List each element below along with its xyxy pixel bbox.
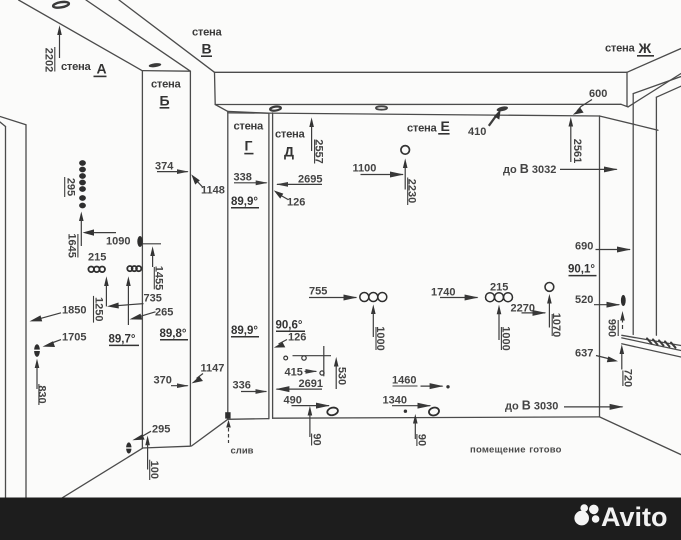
svg-text:1460: 1460 xyxy=(392,375,416,387)
svg-text:1705: 1705 xyxy=(62,332,86,344)
dim to V 3032 xyxy=(503,162,617,176)
dim 1000 left xyxy=(371,304,386,350)
dim 370 xyxy=(154,375,188,387)
svg-text:990: 990 xyxy=(606,319,618,337)
wall label E (Е) xyxy=(407,118,450,135)
towel ring + dim 1070 xyxy=(545,283,562,338)
wall label G (Г) xyxy=(234,121,264,154)
dim 2557 xyxy=(309,117,324,163)
svg-text:Г: Г xyxy=(245,138,253,154)
wall A top edges xyxy=(19,0,191,71)
svg-text:2691: 2691 xyxy=(299,378,323,390)
wall label Zh (Ж) xyxy=(605,40,654,56)
dim 1850 xyxy=(30,305,87,322)
radiator bead chain wall A xyxy=(79,160,86,208)
svg-text:265: 265 xyxy=(155,307,173,319)
dim 1250 xyxy=(92,276,108,322)
dim 520 with bracket marker xyxy=(575,294,626,306)
dim 1740 with pipe chain and 215 xyxy=(431,282,513,302)
angle 89,8 xyxy=(160,328,189,340)
wall label V (В) xyxy=(192,27,222,57)
ceiling band wall V xyxy=(215,72,629,107)
dim 690 xyxy=(575,241,630,253)
svg-text:600: 600 xyxy=(589,88,607,100)
window ledge xyxy=(622,335,681,357)
svg-text:стена: стена xyxy=(605,43,635,55)
svg-text:стена: стена xyxy=(407,123,437,135)
svg-text:89,7°: 89,7° xyxy=(109,334,136,346)
watermark bar xyxy=(0,498,681,540)
svg-text:1148: 1148 xyxy=(201,185,225,197)
drain marker square xyxy=(225,412,231,443)
svg-text:Б: Б xyxy=(160,93,170,109)
svg-text:В: В xyxy=(202,41,212,57)
dim 265 xyxy=(130,307,174,320)
soffit light marker right xyxy=(496,106,508,113)
svg-text:690: 690 xyxy=(575,241,593,253)
svg-text:слив: слив xyxy=(231,446,254,457)
dim 637 leader xyxy=(575,348,618,363)
svg-text:830: 830 xyxy=(36,385,48,403)
dim 410 leader xyxy=(468,109,501,138)
svg-text:755: 755 xyxy=(309,286,327,298)
angle 89,9 upper xyxy=(231,196,259,208)
svg-text:стена: стена xyxy=(192,27,222,39)
svg-text:до В 3032: до В 3032 xyxy=(503,162,556,176)
svg-text:89,9°: 89,9° xyxy=(231,196,258,208)
dim 1100 with water outlet ring xyxy=(353,146,410,190)
svg-text:1147: 1147 xyxy=(201,363,225,375)
svg-text:стена: стена xyxy=(234,121,264,133)
wall Zh corner edges xyxy=(627,49,681,336)
dim 530 xyxy=(334,357,348,389)
svg-text:стена: стена xyxy=(61,61,91,73)
svg-text:2561: 2561 xyxy=(571,139,583,163)
dim 90 left xyxy=(308,406,323,446)
dim 1705 xyxy=(43,332,87,348)
wall V top edge xyxy=(119,0,215,72)
svg-text:Avito: Avito xyxy=(601,502,668,532)
drain oval bottom left xyxy=(125,442,133,453)
wall B column xyxy=(142,71,190,449)
angle 89,7 xyxy=(109,334,140,346)
svg-text:2202: 2202 xyxy=(42,48,54,72)
svg-text:295: 295 xyxy=(152,424,170,436)
socket oval on wall B edge xyxy=(137,236,142,247)
svg-text:1250: 1250 xyxy=(92,297,104,321)
svg-text:637: 637 xyxy=(575,348,593,360)
dim 336 xyxy=(233,380,267,392)
dim 1090 xyxy=(83,229,131,247)
dim 2561 xyxy=(569,117,583,163)
dim 830 xyxy=(35,359,48,405)
wall G column xyxy=(228,111,273,419)
dim 100 xyxy=(145,436,160,481)
dim 295 chain xyxy=(65,177,77,197)
svg-text:410: 410 xyxy=(468,126,486,138)
dim 720 xyxy=(620,344,634,387)
dim 1455 xyxy=(143,244,165,290)
dim 1147 leader xyxy=(192,363,225,384)
svg-text:126: 126 xyxy=(287,197,305,209)
dim 2230 xyxy=(406,178,418,206)
soffit lower edge xyxy=(215,105,658,131)
pipe tee group 415 xyxy=(284,346,331,379)
svg-text:Е: Е xyxy=(441,118,450,134)
dim 126 lower leader xyxy=(274,332,307,348)
svg-text:1740: 1740 xyxy=(431,287,455,299)
angle 89,9 lower xyxy=(231,325,259,337)
dim 990 xyxy=(606,311,625,337)
svg-text:415: 415 xyxy=(285,367,303,379)
right room corner vertical xyxy=(599,116,601,417)
svg-text:338: 338 xyxy=(234,172,252,184)
svg-text:530: 530 xyxy=(336,367,348,385)
svg-text:2695: 2695 xyxy=(298,174,322,186)
dim 1645 xyxy=(66,212,84,258)
floor edge right xyxy=(600,417,681,455)
svg-text:370: 370 xyxy=(154,375,172,387)
angle 90,1 xyxy=(568,264,597,276)
svg-text:336: 336 xyxy=(233,380,251,392)
svg-text:520: 520 xyxy=(575,294,593,306)
left wall panel xyxy=(0,117,28,520)
dim 2695 xyxy=(277,174,322,186)
dim 490 with drain oval xyxy=(284,395,339,417)
socket marker on wall B top xyxy=(149,62,162,68)
valve marker on left wall xyxy=(33,344,41,357)
socket marker on wall A xyxy=(53,1,70,9)
svg-text:помещениеготово: помещениеготово xyxy=(470,445,562,456)
svg-text:1340: 1340 xyxy=(383,395,407,407)
wall label B (Б) xyxy=(151,79,181,109)
svg-text:90,1°: 90,1° xyxy=(568,264,595,276)
dim 338 xyxy=(234,172,267,184)
svg-text:стена: стена xyxy=(151,79,181,91)
angle 90,6 xyxy=(276,320,306,332)
svg-text:стена: стена xyxy=(275,129,305,141)
dim 1340 with drain oval xyxy=(383,395,440,417)
svg-text:295: 295 xyxy=(65,178,77,196)
dim 295 bottom leader xyxy=(132,424,170,441)
svg-text:Д: Д xyxy=(284,144,294,160)
dim 90 right xyxy=(413,414,427,446)
svg-text:1100: 1100 xyxy=(353,163,377,175)
dim 1460 xyxy=(392,375,450,389)
dim 735 xyxy=(107,293,162,309)
pipe circles cluster 2 xyxy=(127,266,141,271)
dim 1000 right xyxy=(497,305,512,351)
svg-text:до В 3030: до В 3030 xyxy=(505,399,558,413)
dim 1148 leader xyxy=(191,174,225,196)
svg-text:1850: 1850 xyxy=(62,305,86,317)
dim to V 3030 xyxy=(505,399,623,413)
soffit light marker left xyxy=(376,106,387,109)
dim 2202 wall A xyxy=(42,25,62,72)
svg-text:90,6°: 90,6° xyxy=(276,320,303,332)
floor edge between B and G xyxy=(192,419,228,446)
svg-text:Ж: Ж xyxy=(638,40,652,56)
dim 755 with pipe chain xyxy=(309,286,387,302)
floor edge left xyxy=(28,448,142,519)
svg-text:1645: 1645 xyxy=(66,233,78,257)
pipe circles cluster 1 xyxy=(88,267,105,273)
dim 2270 xyxy=(511,303,546,315)
svg-text:1090: 1090 xyxy=(106,236,130,248)
wall label A xyxy=(61,61,107,77)
dim 374 xyxy=(155,161,188,173)
dim 126 upper leader xyxy=(274,190,306,208)
dim 2691 xyxy=(276,378,323,390)
svg-text:А: А xyxy=(97,61,107,77)
avito logo circles xyxy=(574,504,599,525)
svg-text:374: 374 xyxy=(155,161,174,173)
svg-text:215: 215 xyxy=(88,252,106,264)
svg-text:490: 490 xyxy=(284,395,302,407)
floor line xyxy=(273,417,600,418)
dim riser at cluster 2 xyxy=(126,276,131,325)
svg-text:735: 735 xyxy=(144,293,162,305)
svg-text:89,9°: 89,9° xyxy=(231,325,258,337)
dim 600 leader xyxy=(573,88,608,115)
wall label D (Д) xyxy=(275,129,305,160)
socket marker on wall G top xyxy=(270,106,281,111)
svg-text:215: 215 xyxy=(490,282,508,294)
svg-text:126: 126 xyxy=(288,332,306,344)
svg-text:89,8°: 89,8° xyxy=(160,328,187,340)
